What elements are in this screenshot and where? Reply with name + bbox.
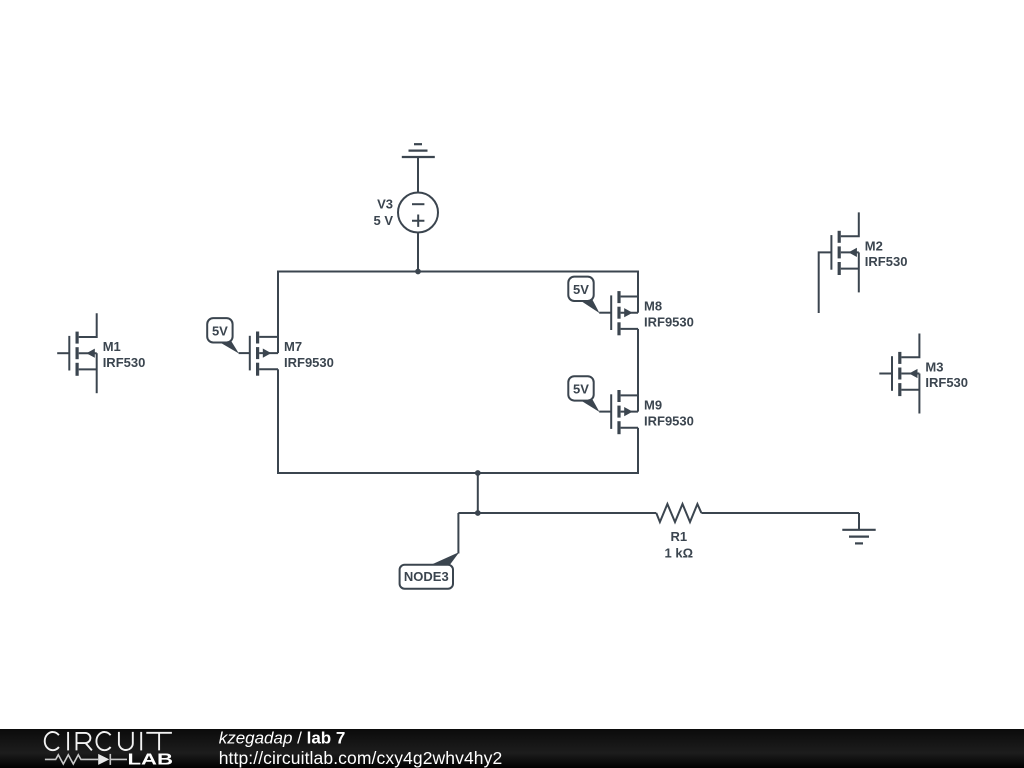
transistor M8 (IRF9530 PMOS)	[599, 295, 638, 330]
wire: NODE3 vertical drop	[457, 513, 459, 554]
svg-text:M7: M7	[284, 339, 302, 354]
transistor M1 (IRF530 NMOS)	[57, 313, 96, 393]
junction dot at V3/top rail	[415, 269, 421, 275]
svg-text:IRF530: IRF530	[103, 355, 146, 370]
wire: R1 right lead	[701, 512, 859, 514]
wire: right edge (M9 source to bottom rail)	[637, 428, 639, 474]
footer bar	[0, 729, 1024, 768]
transistor M3 (IRF530 NMOS)	[879, 334, 919, 414]
wire: right edge (M8 source to M9)	[637, 329, 639, 412]
CircuitLab logo: resistor-diode line	[45, 754, 127, 765]
transistor M7 (IRF9530 PMOS)	[239, 336, 278, 371]
wire: right edge (top part, to M8)	[637, 271, 639, 313]
svg-text:M8: M8	[644, 299, 662, 314]
svg-text:5V: 5V	[573, 381, 589, 396]
svg-text:IRF530: IRF530	[925, 375, 968, 390]
ground (top, above V3)	[402, 144, 435, 192]
net flag 5V	[579, 300, 599, 313]
wire: bottom rail	[278, 472, 638, 474]
CircuitLab logo: CIRCUIT	[45, 732, 172, 751]
svg-text:IRF9530: IRF9530	[644, 314, 694, 329]
wire: tap down from bottom rail	[477, 473, 479, 513]
svg-text:1 kΩ: 1 kΩ	[665, 545, 694, 560]
svg-text:http://circuitlab.com/cxy4g2wh: http://circuitlab.com/cxy4g2whv4hy2	[219, 748, 503, 768]
svg-text:NODE3: NODE3	[404, 569, 449, 584]
junction dot at R1 wire	[475, 510, 481, 516]
svg-text:M1: M1	[103, 339, 121, 354]
junction dot at bottom rail tap	[475, 470, 481, 476]
wire: NODE3 horizontal stub	[458, 512, 477, 514]
wire: top rail	[278, 271, 638, 273]
svg-text:5 V: 5 V	[373, 213, 393, 228]
wire: R1 left lead	[478, 512, 657, 514]
svg-text:M2: M2	[865, 238, 883, 253]
net flag 5V	[218, 341, 239, 353]
svg-text:R1: R1	[670, 529, 687, 544]
transistor M2 (IRF530 NMOS)	[819, 212, 859, 313]
svg-text:5V: 5V	[212, 323, 228, 338]
node NODE3 label	[430, 552, 459, 565]
svg-text:kzegadap / lab 7: kzegadap / lab 7	[219, 729, 346, 748]
svg-text:V3: V3	[377, 197, 393, 212]
resistor R1	[656, 504, 701, 522]
wire: left edge (bottom part, from M7)	[277, 369, 279, 474]
net flag 5V	[579, 400, 599, 413]
wire: left edge (top part, to M7)	[277, 271, 279, 354]
svg-text:M9: M9	[644, 398, 662, 413]
svg-text:5V: 5V	[573, 282, 589, 297]
svg-text:IRF9530: IRF9530	[644, 413, 694, 428]
svg-text:IRF9530: IRF9530	[284, 355, 334, 370]
svg-text:IRF530: IRF530	[865, 254, 908, 269]
svg-text:M3: M3	[925, 360, 943, 375]
ground (right of R1)	[842, 513, 875, 543]
svg-text:LAB: LAB	[128, 752, 174, 768]
voltage source V3	[398, 193, 438, 272]
transistor M9 (IRF9530 PMOS)	[599, 394, 638, 429]
